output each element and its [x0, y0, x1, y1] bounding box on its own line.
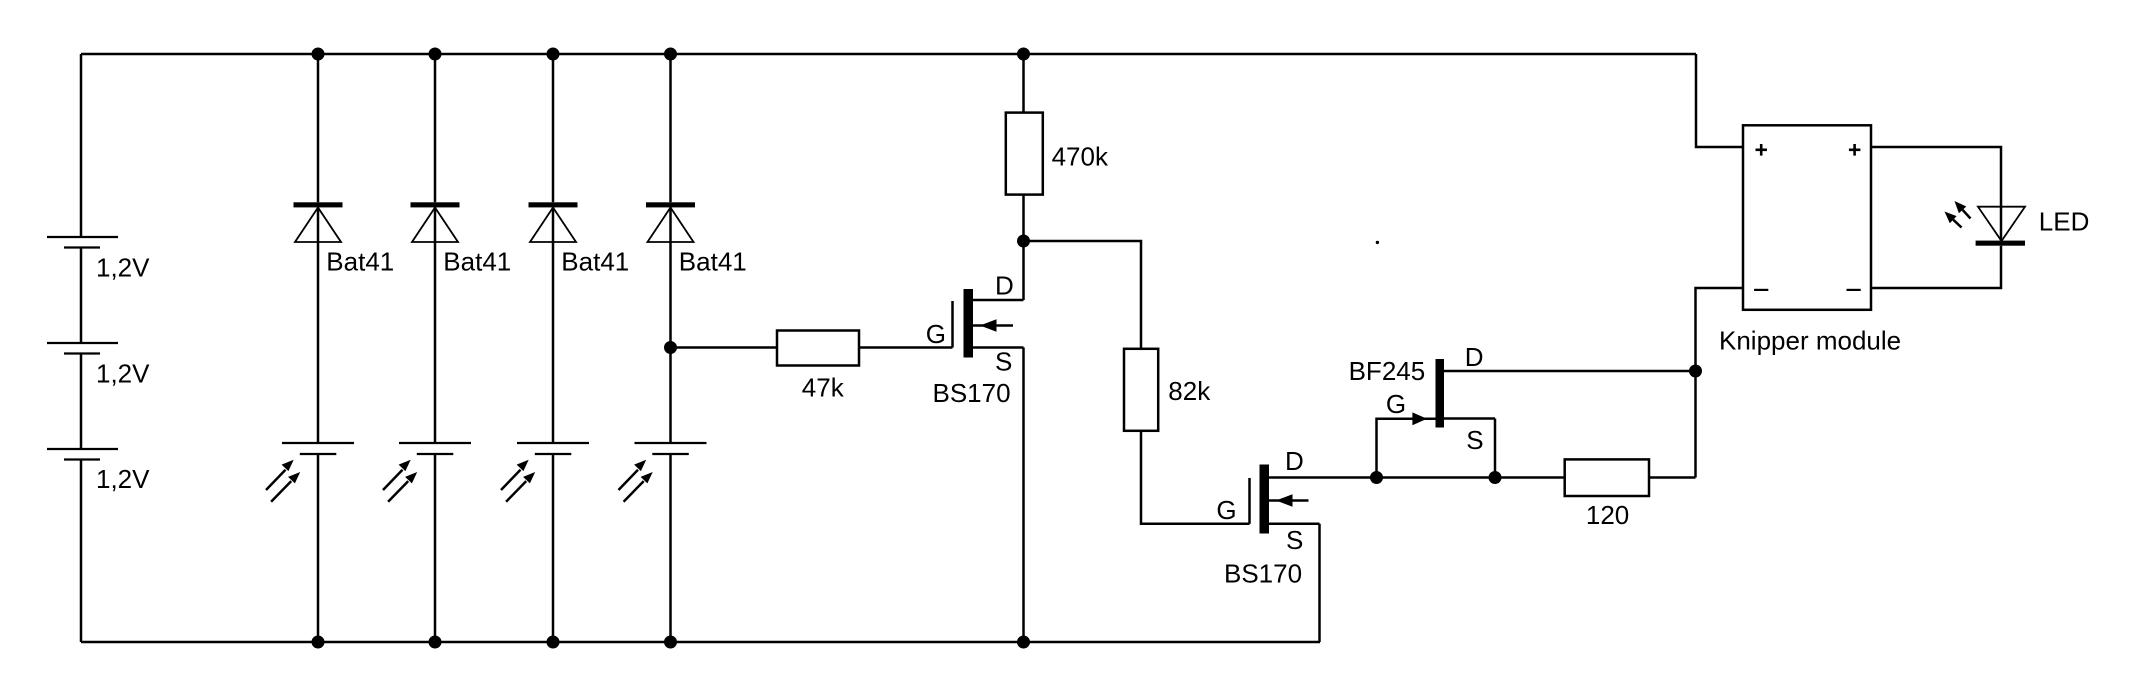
svg-text:LED: LED: [2039, 207, 2090, 237]
resistor R 470k: [1006, 113, 1109, 195]
resistor R 120: [1565, 459, 1649, 530]
svg-text:1,2V: 1,2V: [96, 253, 150, 283]
svg-text:G: G: [1216, 495, 1236, 525]
wire top rail to module plus: [1696, 54, 1743, 147]
diode D1 Bat41: [294, 202, 395, 276]
node Q3 gate tap: [1370, 471, 1383, 484]
svg-text:Bat41: Bat41: [443, 247, 511, 277]
battery B3 1,2V: [47, 449, 150, 494]
svg-text:D: D: [995, 271, 1014, 301]
svg-text:47k: 47k: [802, 372, 845, 402]
svg-text:Knipper module: Knipper module: [1719, 325, 1901, 355]
wire branch 1 top segment: [317, 54, 320, 202]
wire right riser to module minus: [1696, 288, 1744, 478]
wire branch 1 bottom segment: [317, 454, 320, 642]
wire left rail segment above battery B1: [80, 54, 83, 237]
wire branch 3 mid segment: [552, 207, 555, 443]
node gate tap on branch 4: [664, 341, 677, 354]
wire Q2 source down to bottom rail: [1318, 524, 1321, 642]
wire R 82k to gate of Q2: [1141, 431, 1250, 524]
wire top rail: [81, 53, 1696, 56]
junction dots bottom rail: [312, 636, 325, 649]
node drain of Q1: [1017, 235, 1030, 248]
Knipper module U1: [1719, 125, 1901, 355]
svg-text:BS170: BS170: [1224, 559, 1302, 589]
wire branch 4 top segment: [669, 54, 672, 202]
wire below battery B3 to bottom rail: [80, 460, 83, 643]
svg-text:82k: 82k: [1168, 376, 1211, 406]
LED D5: [1945, 201, 2090, 246]
battery B1 1,2V: [47, 237, 150, 283]
svg-text:Bat41: Bat41: [561, 247, 629, 277]
wire bottom rail: [81, 641, 1320, 644]
wire branch 4 bottom segment: [669, 454, 672, 642]
svg-text:Bat41: Bat41: [326, 247, 394, 277]
svg-text:D: D: [1465, 342, 1484, 372]
wire top rail to R 470k: [1022, 54, 1025, 113]
svg-text:G: G: [1386, 389, 1406, 419]
svg-text:Bat41: Bat41: [679, 247, 747, 277]
transistor Q1 BS170: [926, 271, 1024, 409]
solar cell PV4: [619, 443, 707, 502]
wire branch 3 bottom segment: [552, 454, 555, 642]
transistor Q3 BF245: [1349, 342, 1696, 478]
node Q3 drain junction: [1689, 365, 1702, 378]
svg-text:1,2V: 1,2V: [96, 464, 150, 494]
solar cell PV1: [266, 443, 354, 502]
wire branch 3 top segment: [552, 54, 555, 202]
wire branch 2 bottom segment: [434, 454, 437, 642]
wire drain node to R 82k: [1024, 241, 1142, 349]
wire R 47k to gate of Q1: [859, 346, 953, 349]
svg-text:BF245: BF245: [1349, 356, 1426, 386]
wire LED to module minus: [1871, 246, 2001, 288]
diode D2 Bat41: [411, 202, 512, 276]
resistor R 47k: [777, 331, 859, 403]
wire branch 2 mid segment: [434, 207, 437, 443]
battery B2 1,2V: [47, 343, 150, 389]
resistor R 82k: [1124, 349, 1211, 431]
solar cell PV3: [501, 443, 589, 502]
svg-text:S: S: [995, 347, 1012, 377]
svg-text:G: G: [926, 319, 946, 349]
svg-text:S: S: [1286, 525, 1303, 555]
svg-text:1,2V: 1,2V: [96, 359, 150, 389]
wire module plus to LED: [1871, 147, 2001, 207]
wire R 120 to right riser: [1649, 476, 1696, 479]
transistor Q2 BS170: [1216, 446, 1319, 589]
wire R 470k to drain node: [1022, 195, 1025, 241]
solar cell PV2: [383, 443, 471, 502]
wire between B1 and B2: [80, 248, 83, 344]
wire branch 4 mid segment: [669, 207, 672, 443]
node Q3 source tap: [1489, 471, 1502, 484]
stray speck: [1376, 241, 1379, 244]
svg-text:D: D: [1285, 446, 1304, 476]
wire Q2 drain to 120 resistor: [1320, 476, 1565, 479]
wire gate node to R 47k: [671, 346, 778, 349]
svg-text:S: S: [1466, 425, 1483, 455]
junction dots top rail: [312, 48, 325, 61]
diode D3 Bat41: [529, 202, 630, 276]
svg-text:120: 120: [1586, 500, 1629, 530]
svg-text:BS170: BS170: [933, 378, 1011, 408]
wire between B2 and B3: [80, 354, 83, 450]
wire Q1 drain up to node: [1022, 241, 1025, 300]
wire branch 2 top segment: [434, 54, 437, 202]
wire Q3 gate: [1377, 419, 1436, 478]
wire Q1 source down to bottom rail: [1022, 348, 1025, 643]
svg-text:470k: 470k: [1052, 142, 1109, 172]
diode D4 Bat41: [646, 202, 747, 276]
wire branch 1 mid segment: [317, 207, 320, 443]
